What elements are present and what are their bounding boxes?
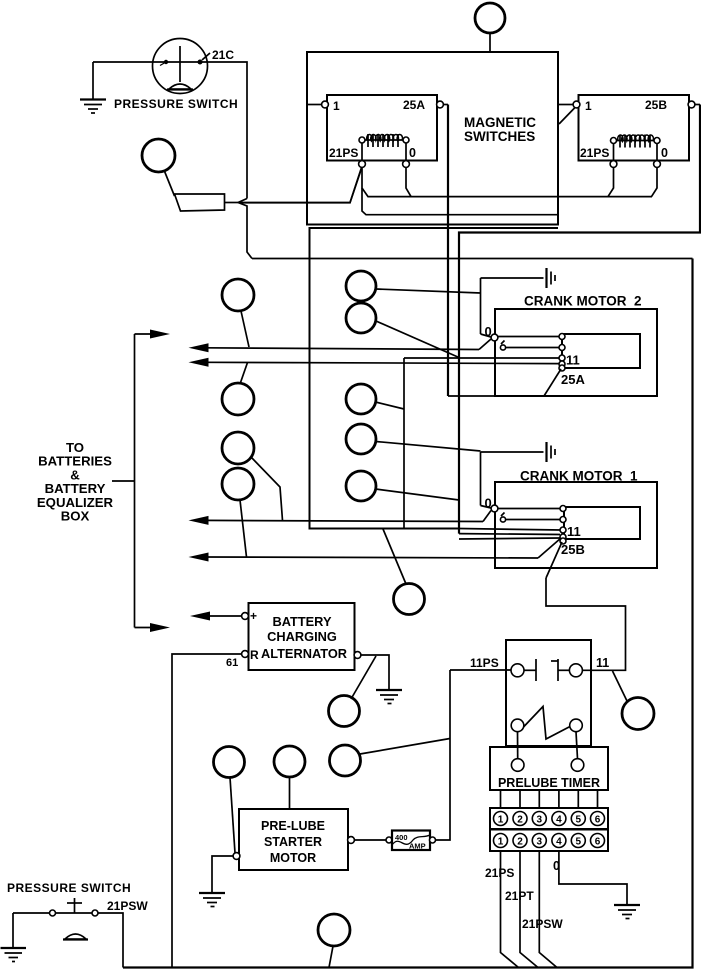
wire top circle stem bbox=[489, 33, 491, 52]
battery charging alternator box bbox=[249, 603, 355, 670]
wire P2 tail bbox=[289, 777, 291, 809]
terminal 21PS below (25A relay) bbox=[359, 161, 366, 168]
terminals 11 (crank motor 1) bbox=[560, 506, 566, 545]
wire ground drop (crank motor 1) bbox=[480, 452, 482, 506]
svg-text:1: 1 bbox=[498, 837, 504, 848]
switch element (21PSW) bbox=[56, 898, 93, 940]
link wire crank motors bbox=[403, 358, 405, 529]
svg-text:25B: 25B bbox=[561, 542, 585, 557]
label 25B leader bbox=[546, 542, 585, 578]
prelube timer upper box bbox=[506, 640, 591, 746]
wire link to pin 11 (crank motor 2) bbox=[404, 357, 559, 359]
coil (25A relay) bbox=[359, 134, 409, 147]
wire fuse to riser bbox=[436, 670, 451, 840]
label MAGNETIC SWITCHES bbox=[464, 115, 536, 144]
pin 6 (crank motor 2) bbox=[500, 341, 559, 351]
pin 6 (crank motor 1) bbox=[500, 513, 560, 523]
wire to ground bbox=[92, 62, 94, 99]
arrow out top bbox=[135, 330, 171, 339]
connector circle M1 bbox=[346, 271, 376, 301]
timer terminals bbox=[511, 759, 583, 772]
wire 21C to junction bbox=[208, 62, 247, 199]
pin 25A bbox=[403, 98, 448, 112]
connector circle L4 bbox=[222, 468, 254, 500]
wire L2 tail bbox=[240, 363, 248, 385]
svg-text:25A: 25A bbox=[403, 98, 425, 112]
connector circle A bbox=[142, 139, 175, 172]
pin 25B bbox=[645, 98, 700, 112]
wire 21PSW (strip 3) bbox=[539, 851, 557, 968]
pre-lube starter motor box bbox=[239, 809, 348, 870]
svg-text:4: 4 bbox=[556, 837, 562, 848]
wire 0 (strip 4) bbox=[559, 851, 627, 905]
svg-text:CHARGING: CHARGING bbox=[267, 629, 337, 644]
pin 0 (crank motor 1) bbox=[485, 496, 498, 512]
svg-text:MAGNETIC: MAGNETIC bbox=[464, 115, 536, 130]
terminal (21PSW left) bbox=[50, 910, 56, 916]
contact symbol bbox=[524, 659, 569, 681]
svg-text:21PT: 21PT bbox=[505, 889, 534, 903]
wire 25A run to crank motor 2 bbox=[448, 395, 497, 397]
connector circle L2 bbox=[222, 383, 254, 415]
wire 21PS terminal lower branch bbox=[362, 188, 558, 215]
terminal right (pre-lube motor) bbox=[348, 837, 355, 844]
svg-text:2: 2 bbox=[517, 837, 523, 848]
ground (strip) bbox=[614, 905, 640, 919]
wire R output bbox=[172, 654, 242, 968]
link to pin 0 (crank motor 2) bbox=[481, 334, 492, 337]
battery wire arrow 3 bbox=[189, 516, 484, 525]
pin 0 (crank motor 2) bbox=[485, 324, 498, 341]
connector circle P3 bbox=[330, 745, 361, 776]
battery wire arrow 2 bbox=[189, 358, 560, 367]
coil stems (25B relay) bbox=[614, 144, 658, 161]
motor body (crank motor 2) bbox=[562, 334, 640, 368]
svg-text:CRANK MOTOR 1: CRANK MOTOR 1 bbox=[520, 469, 638, 484]
ground (alternator) bbox=[376, 690, 402, 704]
prelube timer lower box bbox=[490, 747, 608, 790]
wire left (21PSW) bbox=[13, 912, 50, 914]
svg-text:R: R bbox=[250, 648, 259, 662]
wire junction down to long run bbox=[252, 258, 693, 260]
wire plug to junction bbox=[225, 202, 239, 204]
wire 21C switch horizontal bbox=[93, 61, 208, 63]
blade to crank motor 1 pin 0 bbox=[483, 511, 491, 522]
svg-text:AMP: AMP bbox=[409, 842, 426, 851]
wire 0 terminal branch (25A relay) bbox=[406, 167, 411, 197]
svg-text:11: 11 bbox=[566, 353, 580, 368]
magnetic switch relay 25B box bbox=[579, 95, 690, 161]
svg-text:11PS: 11PS bbox=[470, 656, 499, 670]
connector circle P1 bbox=[214, 747, 245, 778]
pin 1 (25B relay) bbox=[559, 99, 593, 124]
coil (25B relay) bbox=[611, 135, 661, 148]
svg-text:21PS: 21PS bbox=[485, 866, 514, 880]
connector circle below box 2 bbox=[383, 529, 425, 615]
wire to connector circle Q bbox=[613, 671, 628, 701]
svg-text:0: 0 bbox=[661, 146, 668, 160]
terminal strip stems bbox=[501, 790, 598, 808]
wire 21PS terminal right branch bbox=[362, 167, 652, 197]
wire to fuse bbox=[355, 839, 387, 841]
svg-text:1: 1 bbox=[333, 99, 340, 113]
ground (pre-lube motor) bbox=[199, 893, 225, 907]
magnetic switch relay 25A box bbox=[327, 95, 437, 161]
fuse 400 AMP bbox=[386, 831, 436, 851]
terminal (21PSW right) bbox=[92, 910, 98, 916]
arrow out bottom bbox=[135, 623, 171, 632]
svg-text:5: 5 bbox=[576, 837, 582, 848]
svg-text:STARTER: STARTER bbox=[264, 835, 322, 849]
svg-text:PRE-LUBE: PRE-LUBE bbox=[261, 819, 325, 833]
svg-text:BOX: BOX bbox=[61, 509, 90, 524]
pressure switch 21PSW assembly bbox=[7, 881, 148, 913]
svg-text:3: 3 bbox=[537, 837, 543, 848]
wire circle A to plug bbox=[164, 170, 175, 196]
magnetic switches outer box bbox=[307, 52, 558, 225]
label TO BATTERIES bbox=[37, 440, 114, 524]
wire P1 tail bbox=[230, 778, 235, 854]
connector circle M4 bbox=[346, 424, 376, 454]
wire 21PS terminal (25B relay) bbox=[608, 168, 614, 197]
wire lower stub to crank motor 1 bbox=[459, 538, 560, 539]
svg-text:2: 2 bbox=[517, 815, 523, 826]
svg-text:400: 400 bbox=[395, 833, 408, 842]
terminal R (alternator) bbox=[226, 648, 259, 669]
svg-text:21PS: 21PS bbox=[329, 146, 358, 160]
wire 21PT (strip 2) bbox=[520, 851, 538, 968]
svg-text:25A: 25A bbox=[561, 372, 585, 387]
svg-text:BATTERY: BATTERY bbox=[272, 614, 331, 629]
enclosure right side wire bbox=[123, 259, 693, 968]
wire + arrow bbox=[190, 612, 242, 621]
label 21C bbox=[202, 48, 234, 62]
link to pin 0 (crank motor 1) bbox=[481, 506, 492, 509]
svg-text:11: 11 bbox=[567, 524, 581, 539]
terminal strip row 1 bbox=[490, 808, 608, 829]
plug connector bbox=[175, 194, 225, 211]
coil stems (25A relay) bbox=[362, 143, 406, 161]
motor body (crank motor 1) bbox=[564, 507, 640, 539]
wire pin 0 to motor (crank motor 2) bbox=[498, 336, 559, 338]
ground bbox=[80, 100, 106, 114]
svg-text:0: 0 bbox=[409, 146, 416, 160]
svg-text:21PSW: 21PSW bbox=[522, 917, 563, 931]
wire 21PS (strip 1) bbox=[501, 851, 519, 968]
svg-text:0: 0 bbox=[485, 324, 492, 339]
crank motor 2 outer box bbox=[495, 309, 657, 396]
connector circle M3 bbox=[346, 384, 376, 414]
battery wire arrow 4 bbox=[189, 553, 539, 562]
pin 1 (25A relay) bbox=[307, 99, 340, 113]
wire junction to coil 21PS bbox=[238, 166, 362, 203]
svg-text:PRESSURE SWITCH: PRESSURE SWITCH bbox=[114, 97, 238, 111]
wire P3 tail bbox=[360, 739, 450, 755]
svg-text:0: 0 bbox=[553, 859, 560, 873]
wire L4 tail bbox=[240, 500, 247, 557]
blade to crank motor 1 pin 11 bbox=[538, 538, 561, 558]
connector circle L3 bbox=[222, 432, 254, 464]
wire 25B output bbox=[459, 105, 700, 534]
wire 25B to crank motor 1 bbox=[459, 533, 560, 536]
svg-text:1: 1 bbox=[585, 99, 592, 113]
terminal 0 below (25A relay) bbox=[403, 161, 410, 168]
wire 11PS bbox=[450, 669, 511, 671]
connector circle N1 bbox=[329, 696, 360, 727]
wire M4 bbox=[376, 442, 481, 452]
svg-text:ALTERNATOR: ALTERNATOR bbox=[261, 646, 347, 661]
wire 11 to crank motor 1 bbox=[546, 578, 626, 670]
wire to ground (21PSW) bbox=[12, 913, 14, 948]
svg-text:11: 11 bbox=[596, 656, 609, 670]
blade to crank motor 2 pin 0 bbox=[479, 339, 491, 350]
connector circle Q bbox=[622, 698, 654, 730]
svg-text:4: 4 bbox=[556, 815, 562, 826]
svg-text:CRANK MOTOR 2: CRANK MOTOR 2 bbox=[524, 294, 642, 309]
ground (crank motor 2) bbox=[481, 268, 556, 288]
terminal right (alternator) bbox=[354, 652, 361, 659]
connector circle L1 bbox=[222, 279, 254, 311]
ground (crank motor 1) bbox=[481, 442, 556, 462]
battery wire arrow 1 bbox=[189, 343, 480, 352]
big enclosure box 2 bbox=[310, 228, 559, 529]
svg-text:PRELUBE TIMER: PRELUBE TIMER bbox=[498, 776, 600, 790]
svg-text:SWITCHES: SWITCHES bbox=[464, 129, 535, 144]
stems to timer bbox=[518, 732, 578, 759]
thermal zigzag bbox=[524, 707, 571, 740]
wire to ground (alternator) bbox=[361, 655, 389, 690]
terminals 11 (crank motor 2) bbox=[559, 334, 565, 372]
wire pin 0 to motor (crank motor 1) bbox=[498, 508, 560, 510]
wire to connector circle (alternator) bbox=[351, 656, 376, 699]
svg-text:MOTOR: MOTOR bbox=[270, 851, 316, 865]
svg-text:0: 0 bbox=[485, 496, 492, 511]
wire label to bus bbox=[112, 480, 135, 482]
svg-text:6: 6 bbox=[595, 837, 601, 848]
connector circle M2 bbox=[346, 303, 376, 333]
svg-text:61: 61 bbox=[226, 657, 238, 669]
wire 21PS terminal left branch bbox=[240, 167, 362, 203]
wire ground drop (crank motor 2) bbox=[480, 278, 482, 334]
thermal element circles bbox=[511, 719, 582, 732]
svg-text:25B: 25B bbox=[645, 98, 667, 112]
crank motor 1 outer box bbox=[495, 482, 657, 568]
svg-text:1: 1 bbox=[498, 815, 504, 826]
wire right (21PSW) bbox=[98, 913, 123, 968]
terminal left (pre-lube motor) bbox=[233, 853, 240, 860]
ground (21PSW) bbox=[1, 948, 27, 962]
wire M5 bbox=[376, 489, 460, 500]
wire 0 terminal (25B relay) bbox=[652, 168, 658, 197]
svg-text:21PSW: 21PSW bbox=[107, 899, 148, 913]
wire M2 bbox=[376, 321, 459, 358]
connector circle M5 bbox=[346, 471, 376, 501]
connector circle top bbox=[475, 3, 505, 33]
pressure switch 21C body bbox=[153, 39, 208, 94]
terminal 21PS below (25B relay) bbox=[610, 161, 617, 168]
wire L3 tail bbox=[251, 457, 283, 520]
wire 25A output down bbox=[447, 105, 449, 397]
wire L1 tail bbox=[241, 311, 249, 347]
wire to ground (pre-lube motor) bbox=[212, 856, 233, 893]
connector circle P2 bbox=[274, 746, 305, 777]
terminal strip row 2 bbox=[490, 830, 608, 852]
label PRE-LUBE STARTER MOTOR bbox=[261, 819, 325, 865]
terminal 0 below (25B relay) bbox=[654, 161, 661, 168]
svg-text:PRESSURE SWITCH: PRESSURE SWITCH bbox=[7, 881, 131, 895]
terminal + (alternator) bbox=[242, 609, 257, 623]
contact 11PS circle bbox=[511, 664, 524, 677]
contact 11 circle bbox=[569, 664, 582, 677]
svg-text:5: 5 bbox=[576, 815, 582, 826]
svg-text:21C: 21C bbox=[212, 48, 234, 62]
svg-text:3: 3 bbox=[537, 815, 543, 826]
wire M3 bbox=[376, 402, 405, 409]
connector circle bottom bbox=[318, 914, 350, 968]
svg-text:+: + bbox=[250, 609, 257, 623]
svg-text:21PS: 21PS bbox=[580, 146, 609, 160]
label 25A leader bbox=[544, 369, 585, 396]
svg-text:6: 6 bbox=[595, 815, 601, 826]
battery bus vertical bbox=[134, 334, 136, 628]
wire M1 to node bbox=[376, 289, 481, 293]
label BATTERY CHARGING ALTERNATOR bbox=[261, 614, 347, 661]
